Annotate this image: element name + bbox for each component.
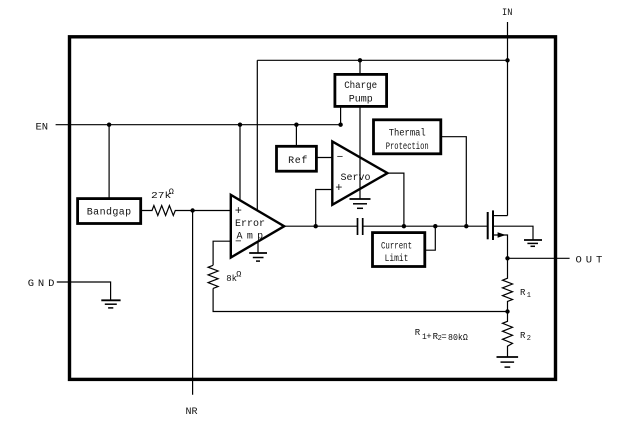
svg-text:NR: NR xyxy=(185,407,197,418)
junction: feedback divider node xyxy=(505,309,509,313)
svg-text:R: R xyxy=(520,288,526,298)
value label R1+R2 xyxy=(415,328,469,343)
svg-text:=: = xyxy=(441,332,446,342)
resistor 27k xyxy=(141,187,231,215)
wire error amp EN stem xyxy=(239,125,241,201)
svg-text:2: 2 xyxy=(527,335,531,343)
ground symbol (error amp) xyxy=(249,242,267,261)
svg-text:Ω: Ω xyxy=(169,187,174,197)
svg-text:Bandgap: Bandgap xyxy=(87,207,132,219)
thermal protection block xyxy=(374,120,441,154)
op-amp error amp U1 xyxy=(231,195,284,258)
junction: current limit to bus xyxy=(433,224,437,228)
svg-text:Error: Error xyxy=(235,219,265,230)
wire servo non-inverting input xyxy=(316,190,333,227)
resistor R1 xyxy=(503,258,532,311)
wire main bus error amp output to capacitor xyxy=(284,225,357,227)
junction: EN to bandgap xyxy=(107,123,111,127)
op-amp servo xyxy=(332,142,387,205)
junction: thermal protection / gate node xyxy=(464,224,468,228)
wire ref to servo inverting input xyxy=(316,157,332,159)
wire ref EN stem xyxy=(295,125,297,147)
resistor 8k xyxy=(208,265,241,288)
svg-text:OUT: OUT xyxy=(576,255,607,267)
wire servo output xyxy=(388,173,404,226)
svg-text:Charge: Charge xyxy=(344,80,377,92)
wire charge pump supply stem xyxy=(359,60,361,74)
junction: EN to charge pump xyxy=(338,123,342,127)
svg-text:GND: GND xyxy=(28,278,59,290)
junction: servo non-inverting tap xyxy=(314,224,318,228)
wire charge pump / servo ground stem xyxy=(359,106,361,199)
svg-text:Protection: Protection xyxy=(386,141,429,153)
svg-text:R: R xyxy=(520,331,526,341)
svg-text:Ω: Ω xyxy=(236,269,241,279)
svg-text:+: + xyxy=(426,332,431,342)
wire current limit to bus xyxy=(425,226,436,250)
svg-text:Servo: Servo xyxy=(340,173,370,184)
wire EN bus xyxy=(56,124,341,126)
svg-text:EN: EN xyxy=(36,121,49,133)
wire OUT lead xyxy=(508,257,570,259)
ground symbol (GND pin) xyxy=(101,300,120,308)
svg-text:−: − xyxy=(337,152,344,164)
ref block xyxy=(277,146,317,171)
svg-text:Current: Current xyxy=(381,242,412,253)
capacitor C1 xyxy=(358,218,363,235)
junction: OUT node xyxy=(505,256,509,260)
resistor R2 xyxy=(503,312,532,358)
wire thermal protection to gate node xyxy=(441,137,467,227)
svg-text:−: − xyxy=(235,237,242,249)
junction: NR node xyxy=(190,208,194,212)
bandgap block xyxy=(78,199,141,224)
wire IN input rail xyxy=(507,22,509,216)
junction: servo output to bus xyxy=(402,224,406,228)
IC boundary box xyxy=(70,37,556,380)
svg-text:80kΩ: 80kΩ xyxy=(448,333,468,343)
junction: top bus to charge pump xyxy=(358,58,362,62)
junction: IN rail to top bus xyxy=(505,58,509,62)
svg-text:R: R xyxy=(415,328,421,338)
wire NR rail xyxy=(192,211,194,395)
ground symbol (transistor body) xyxy=(524,240,542,246)
wire top bus xyxy=(257,59,507,61)
wire main bus capacitor to gate xyxy=(363,225,488,227)
ground symbol (R2) xyxy=(497,357,519,367)
svg-text:Limit: Limit xyxy=(385,253,409,265)
wire charge pump EN stem xyxy=(340,106,342,124)
svg-text:IN: IN xyxy=(502,7,512,19)
svg-text:Ref: Ref xyxy=(288,155,308,167)
svg-text:Pump: Pump xyxy=(349,95,373,106)
current limit block xyxy=(373,233,425,267)
svg-text:+: + xyxy=(235,204,242,218)
wire bandgap EN stem xyxy=(108,125,110,199)
charge pump block xyxy=(335,74,387,106)
ground symbol (servo) xyxy=(350,199,371,208)
junction: EN to error amp xyxy=(238,123,242,127)
wire error amp inverting lead xyxy=(213,241,231,265)
junction: EN to ref xyxy=(294,123,298,127)
svg-text:1: 1 xyxy=(527,292,531,300)
svg-text:Thermal: Thermal xyxy=(389,127,426,139)
wire feedback from divider to 8k xyxy=(213,288,507,311)
wire GND lead xyxy=(57,282,111,300)
transistor Q1 pass PMOS xyxy=(488,210,533,258)
wire error amp supply stem xyxy=(256,60,258,211)
